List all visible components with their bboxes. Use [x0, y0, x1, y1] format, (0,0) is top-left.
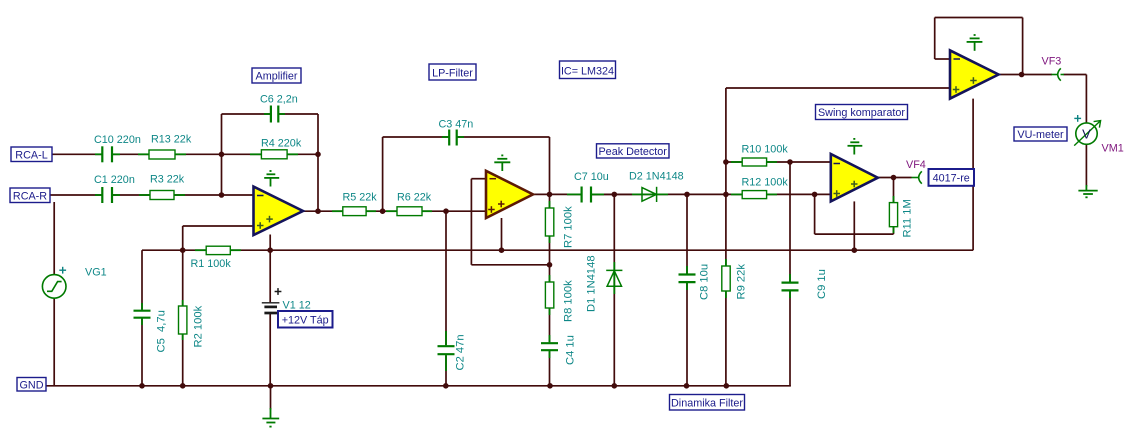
svg-text:VF4: VF4: [906, 159, 926, 171]
label box Swing komparator: [816, 105, 908, 120]
svg-text:R2 100k: R2 100k: [193, 305, 205, 347]
capacitor C9: [782, 283, 799, 291]
capacitor C2: [438, 346, 455, 354]
wire R10 row: [726, 161, 831, 163]
svg-text:Dinamika Filter: Dinamika Filter: [671, 398, 743, 410]
capacitor C7: [582, 187, 591, 203]
svg-text:C2 47n: C2 47n: [455, 334, 467, 370]
svg-text:V: V: [1082, 127, 1091, 142]
capacitor C3: [449, 130, 457, 146]
capacitor C10: [102, 146, 112, 162]
wire hysteresis vertical at U3 input: [814, 194, 816, 234]
wire U4 feedback top: [935, 17, 1023, 19]
wire U1 output row with R5 R6: [303, 210, 486, 212]
ground above op-amp U3: [848, 139, 863, 155]
battery V1: [262, 288, 282, 313]
svg-text:D2 1N4148: D2 1N4148: [629, 171, 684, 183]
wire C5 to rail: [141, 319, 143, 386]
wire vertical C6 left: [221, 114, 223, 195]
svg-text:Swing komparator: Swing komparator: [818, 107, 905, 119]
wire +12V bias row: [142, 249, 973, 251]
svg-text:C5 4,7u: C5 4,7u: [156, 310, 168, 352]
wire C6 feedback top row left: [222, 113, 271, 115]
resistor R3: [150, 191, 174, 200]
svg-text:R9 22k: R9 22k: [736, 264, 748, 300]
svg-text:R5 22k: R5 22k: [343, 192, 378, 204]
svg-text:C10 220n: C10 220n: [94, 134, 141, 146]
svg-text:GND: GND: [20, 380, 44, 392]
svg-text:C7 10u: C7 10u: [574, 171, 609, 183]
svg-text:RCA-R: RCA-R: [13, 191, 47, 203]
label box 4017-re: [929, 169, 975, 186]
wire C4 to rail: [549, 351, 551, 386]
svg-text:R10 100k: R10 100k: [742, 144, 789, 156]
op-amp U1: [254, 187, 304, 235]
wire U2 inverting input stub: [471, 178, 486, 180]
wire U1 supply to battery: [269, 235, 271, 303]
diode D2: [632, 187, 668, 202]
capacitor C6: [271, 106, 278, 123]
svg-text:R4 220k: R4 220k: [261, 138, 302, 150]
label box LP-Filter: [429, 64, 476, 80]
wire C9 to rail: [789, 291, 791, 386]
svg-text:V1 12: V1 12: [283, 300, 311, 312]
wire C3 feedback row right: [457, 136, 549, 138]
wire C3 down through R7 R8 chain: [549, 137, 551, 342]
wire C2 to rail: [445, 355, 447, 386]
label box Amplifier: [252, 68, 301, 83]
wire RCA-L to C10: [52, 153, 102, 155]
wire rail to lower ground: [270, 386, 272, 410]
wire C7 to D2 to R12 to U3 noninverting input: [592, 193, 831, 195]
label box Peak Detector: [597, 144, 670, 158]
svg-text:C4 1u: C4 1u: [565, 335, 577, 365]
svg-text:C8 10u: C8 10u: [699, 264, 711, 300]
wire C10 to R13 to R4 row: [113, 153, 318, 155]
svg-text:C6 2,2n: C6 2,2n: [260, 94, 298, 106]
resistor R4: [261, 150, 287, 159]
resistor R9: [722, 266, 730, 291]
resistor R2: [179, 306, 187, 334]
wire R11 hysteresis bottom: [815, 233, 894, 235]
wire R6 junction down to C2: [445, 211, 447, 345]
op-amp U3: [831, 154, 878, 201]
wire U4 inverting input stub: [935, 58, 950, 60]
svg-text:RCA-L: RCA-L: [15, 150, 47, 162]
wire U4 feedback left vertical: [934, 18, 936, 60]
svg-text:R3 22k: R3 22k: [150, 174, 185, 186]
svg-text:R12 100k: R12 100k: [742, 177, 789, 189]
resistor R7: [545, 208, 553, 236]
svg-text:VF3: VF3: [1042, 56, 1062, 68]
ground above op-amp U4: [967, 35, 983, 51]
capacitor C1: [102, 187, 112, 203]
svg-text:C9 1u: C9 1u: [816, 269, 828, 299]
wire C3 feedback row left: [383, 136, 449, 138]
wire vertical C6 right feedback: [317, 114, 319, 211]
label box Dinamika Filter: [670, 395, 745, 411]
svg-text:R6 22k: R6 22k: [397, 192, 432, 204]
op-amp U4: [950, 50, 999, 98]
wire C1 to R3 to op-amp U1 inverting input: [113, 194, 254, 196]
wire C8 vertical top: [686, 194, 688, 273]
op-amp U2: [486, 171, 533, 218]
label box +12V Tap: [278, 311, 333, 328]
wire RCA-R to C1: [50, 194, 102, 196]
resistor R12: [742, 191, 766, 199]
svg-text:4017-re: 4017-re: [933, 173, 970, 185]
wire U1 bias divider vertical: [182, 226, 184, 306]
svg-text:R11 1M: R11 1M: [902, 199, 914, 237]
svg-text:R8 100k: R8 100k: [563, 280, 575, 322]
svg-text:LP-Filter: LP-Filter: [432, 68, 473, 80]
svg-text:VG1: VG1: [85, 267, 107, 279]
wire U1 non-inverting input: [183, 225, 254, 227]
resistor R10: [742, 158, 766, 166]
wire U3 supply down to 12V row: [853, 201, 855, 250]
svg-text:R7 100k: R7 100k: [563, 206, 575, 248]
capacitor C8: [679, 275, 696, 283]
wire D2 junction down through D1 to rail: [613, 194, 615, 385]
wire ground rail: [46, 385, 791, 387]
wire bias row to C5: [141, 250, 143, 310]
resistor R6: [397, 207, 422, 216]
ground below battery: [262, 408, 279, 427]
svg-text:IC= LM324: IC= LM324: [561, 66, 614, 78]
wire C9 vertical top: [789, 162, 791, 282]
svg-text:Amplifier: Amplifier: [256, 71, 298, 83]
node box RCA-R: [10, 188, 50, 203]
wire peak node vertical with R9: [725, 88, 727, 386]
wire U2 inverting feedback vertical: [470, 179, 472, 265]
resistor R11: [889, 203, 897, 227]
svg-text:D1 1N4148: D1 1N4148: [586, 255, 598, 312]
voltmeter VM1: [1074, 121, 1100, 146]
svg-text:R1 100k: R1 100k: [191, 258, 232, 270]
wire U4 supply down to 12V row: [972, 99, 974, 251]
wire C8 to rail: [686, 283, 688, 386]
wire R2 to rail: [182, 334, 184, 386]
ground above op-amp U2: [494, 155, 510, 171]
wire battery to rail: [269, 314, 271, 386]
wire VF3 to VM1: [1064, 74, 1087, 76]
wire U2 feedback bottom row: [471, 264, 549, 266]
capacitor C5: [134, 311, 151, 318]
resistor R1: [206, 246, 230, 254]
green component leads: [95, 114, 894, 371]
ground above op-amp U1: [264, 171, 279, 187]
svg-text:R13 22k: R13 22k: [151, 134, 192, 146]
svg-text:VM1: VM1: [1102, 143, 1124, 155]
wire U4 feedback right vertical: [1022, 18, 1024, 75]
node box RCA-L: [11, 147, 52, 162]
diode D1: [606, 262, 622, 294]
svg-text:C1 220n: C1 220n: [94, 174, 135, 186]
resistor R13: [149, 150, 175, 159]
resistor R8: [545, 282, 553, 308]
wire U4 output to VF3: [999, 74, 1053, 76]
connector VF3: [1052, 68, 1065, 80]
label box IC= LM324: [560, 61, 616, 79]
capacitor C4: [541, 343, 558, 350]
generator VG1: [42, 275, 66, 299]
wire R11 vertical: [893, 178, 895, 235]
wire VF3 down to VM1: [1085, 75, 1087, 124]
svg-text:+12V Táp: +12V Táp: [282, 315, 329, 327]
wire U2 supply down to 12V row: [501, 218, 503, 250]
node box GND: [17, 378, 46, 392]
connector VF4: [912, 171, 922, 183]
resistor R5: [343, 207, 366, 216]
wire U3 output to VF4: [878, 177, 912, 179]
svg-text:VU-meter: VU-meter: [1017, 129, 1064, 141]
label box VU-meter: [1014, 127, 1067, 141]
wire to U4 noninverting input: [726, 87, 950, 89]
wire RCA-R down through VG1 to rail: [53, 202, 55, 386]
svg-text:Peak Detector: Peak Detector: [598, 146, 667, 158]
ground below VM1: [1078, 185, 1097, 197]
wire R5 junction up to C3: [382, 137, 384, 211]
wire U2 output to C7: [533, 193, 581, 195]
wire VM1 to ground: [1085, 144, 1087, 186]
wire C6 feedback top row right: [279, 113, 318, 115]
svg-text:C3 47n: C3 47n: [439, 119, 474, 131]
